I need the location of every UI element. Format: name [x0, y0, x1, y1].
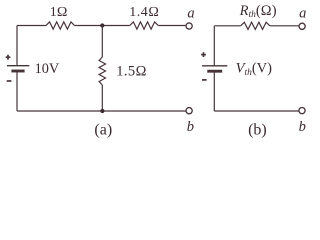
battery Vth minus sign	[202, 79, 207, 81]
wire: circuit (b) top right segment	[270, 25, 299, 27]
node: terminal a of circuit (a) open circle	[186, 23, 192, 29]
resistor 1.4 ohm (zigzag)	[130, 22, 158, 29]
wire: circuit (a) top left segment	[17, 25, 46, 27]
svg-text:1.4Ω: 1.4Ω	[129, 5, 159, 20]
svg-text:b: b	[187, 119, 194, 135]
wire: circuit (a) battery bottom lead	[16, 71, 18, 111]
battery V1 minus sign	[7, 80, 12, 82]
svg-text:Rth(Ω): Rth(Ω)	[239, 3, 277, 20]
battery Vth short thick negative plate	[207, 70, 222, 73]
battery V1 short thick negative plate	[11, 70, 24, 73]
wire: circuit (a) top middle segment	[75, 25, 130, 27]
svg-text:b: b	[299, 119, 306, 135]
wire: circuit (a) battery top lead	[16, 26, 18, 66]
svg-text:(a): (a)	[94, 121, 112, 138]
node: junction dot top	[100, 23, 104, 27]
resistor Rth (zigzag)	[241, 22, 270, 29]
battery V1 long positive plate	[7, 65, 30, 67]
svg-text:a: a	[299, 6, 306, 22]
wire: circuit (b) top left segment	[214, 25, 240, 27]
node: terminal b of circuit (a) open circle	[186, 108, 192, 114]
svg-text:1Ω: 1Ω	[50, 5, 68, 20]
node: terminal b of circuit (b) open circle	[299, 108, 305, 114]
svg-text:(b): (b)	[248, 121, 267, 138]
svg-text:Vth(V): Vth(V)	[236, 61, 273, 78]
svg-text:1.5Ω: 1.5Ω	[116, 64, 147, 80]
battery V1 plus sign	[6, 55, 11, 60]
wire: circuit (a) top right segment	[158, 25, 185, 27]
wire: circuit (b) battery bottom lead	[213, 71, 215, 111]
svg-text:10V: 10V	[35, 61, 60, 77]
node: terminal a of circuit (b) open circle	[299, 23, 305, 29]
wire: junction to 1.5 ohm resistor	[101, 26, 103, 58]
node: junction dot bottom	[100, 109, 104, 113]
resistor 1.5 ohm (vertical zigzag)	[99, 57, 105, 85]
wire: circuit (a) bottom rail	[17, 110, 186, 112]
svg-text:a: a	[187, 5, 194, 21]
wire: 1.5 ohm resistor to bottom rail	[101, 85, 103, 111]
battery Vth plus sign	[201, 52, 206, 57]
battery Vth long positive plate	[202, 65, 227, 67]
wire: circuit (b) battery top lead	[213, 26, 215, 66]
wire: circuit (b) bottom rail	[214, 110, 298, 112]
resistor 1 ohm (zigzag)	[46, 22, 75, 29]
